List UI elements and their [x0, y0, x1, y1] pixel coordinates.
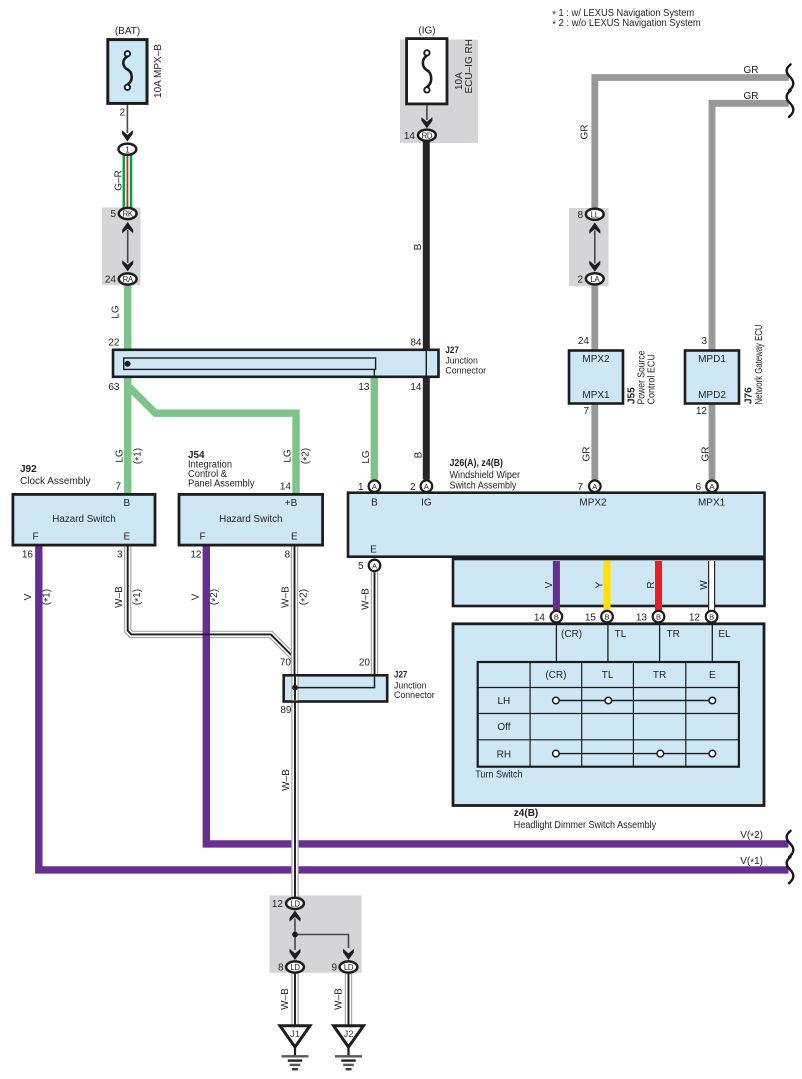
lead EL: [711, 625, 713, 662]
svg-text:A: A: [592, 482, 597, 491]
svg-text:E: E: [370, 545, 377, 556]
J27 mid bus dot: [292, 685, 298, 691]
wire LG J27 pin 13 to J26 pin 1A: [371, 377, 378, 480]
svg-text:(CR): (CR): [545, 670, 566, 681]
svg-text:84: 84: [410, 338, 422, 349]
switch J54 Hazard Switch: [179, 494, 323, 545]
svg-text:2: 2: [410, 482, 416, 493]
switch assembly inner box (V/Y/R/W): [453, 559, 765, 606]
wire B RD to J27 pin 84: [423, 142, 430, 352]
svg-text:Network Gateway ECU: Network Gateway ECU: [754, 325, 765, 405]
svg-text:A: A: [424, 482, 429, 491]
svg-text:70: 70: [280, 658, 292, 669]
svg-text:TL: TL: [615, 629, 627, 640]
arrow up RK: [122, 222, 133, 233]
break symbol V(*2): [787, 831, 794, 857]
svg-text:GR: GR: [582, 447, 593, 462]
svg-text:MPX1: MPX1: [582, 390, 610, 401]
svg-text:20: 20: [359, 658, 371, 669]
svg-text:B: B: [413, 243, 424, 250]
svg-text:J26(A), z4(B): J26(A), z4(B): [450, 458, 504, 469]
svg-text:* 2 : w/o LEXUS Navigation Sys: * 2 : w/o LEXUS Navigation System: [552, 18, 700, 31]
svg-text:E: E: [291, 532, 298, 543]
svg-text:MPD1: MPD1: [698, 354, 726, 365]
lead TR: [659, 625, 661, 662]
svg-text:V: V: [544, 581, 555, 588]
svg-text:14: 14: [280, 482, 292, 493]
ECU J55 Power Source Control ECU: [569, 351, 623, 404]
wire GR horizontal+vertical to J76 (net MPX1): [712, 103, 789, 351]
svg-text:2: 2: [577, 275, 583, 286]
svg-text:TR: TR: [653, 670, 666, 681]
link line RK-RA: [127, 230, 129, 263]
J27 bus dot: [125, 361, 131, 367]
ground J1: [280, 1026, 310, 1047]
svg-text:V: V: [191, 593, 202, 600]
svg-text:12: 12: [190, 549, 202, 560]
svg-text:W–B: W–B: [114, 586, 125, 608]
svg-text:J27: J27: [445, 345, 458, 356]
wire W-B J54 pin E to J27 pin 70: [291, 545, 298, 676]
arrow down to LD 9: [343, 949, 354, 960]
svg-text:13: 13: [358, 382, 370, 393]
connector ellipse RD: [418, 130, 436, 141]
svg-text:LA: LA: [590, 275, 600, 284]
svg-text:B: B: [709, 613, 714, 622]
lead TL: [607, 625, 609, 662]
svg-text:B: B: [123, 498, 130, 509]
svg-text:W: W: [699, 580, 710, 590]
svg-text:3: 3: [701, 336, 707, 347]
svg-text:LG: LG: [361, 450, 372, 464]
svg-text:J76: J76: [744, 387, 755, 404]
svg-text:J92: J92: [20, 464, 37, 475]
wire W-B LD pin 9 to ground J2: [345, 974, 352, 1027]
svg-text:5: 5: [110, 209, 116, 220]
ground J2: [334, 1026, 364, 1047]
svg-text:+B: +B: [285, 498, 298, 509]
svg-text:12: 12: [272, 899, 284, 910]
svg-text:8: 8: [278, 963, 284, 974]
svg-text:A: A: [372, 561, 377, 570]
link line LL-LA: [594, 231, 596, 264]
arrow down to LD 8: [290, 949, 301, 960]
svg-text:Connector: Connector: [394, 690, 435, 701]
wire W-B J27 pin 89 to LD pin 12: [291, 701, 298, 897]
svg-text:F: F: [199, 532, 205, 543]
svg-text:63: 63: [108, 382, 120, 393]
svg-text:GR: GR: [744, 65, 759, 76]
svg-text:Y: Y: [595, 581, 606, 588]
connector ellipse LL: [586, 209, 604, 220]
break symbol GR wire1: [787, 64, 794, 90]
svg-text:LG: LG: [115, 449, 126, 463]
svg-text:TL: TL: [602, 670, 614, 681]
svg-text:(*1): (*1): [132, 589, 145, 605]
svg-text:B: B: [656, 613, 661, 622]
svg-text:8: 8: [577, 210, 583, 221]
wire Y inside: [604, 561, 611, 611]
svg-text:Hazard Switch: Hazard Switch: [219, 514, 282, 525]
svg-text:5: 5: [358, 561, 364, 572]
svg-text:A: A: [372, 482, 377, 491]
svg-text:W–B: W–B: [361, 588, 372, 610]
connector ellipse LD 12: [286, 898, 304, 909]
svg-text:GR: GR: [580, 125, 591, 140]
wire R inside: [655, 561, 662, 611]
svg-text:F: F: [32, 532, 38, 543]
svg-text:B: B: [371, 498, 378, 509]
arrow up LD: [290, 910, 301, 921]
svg-text:J27: J27: [394, 670, 407, 681]
svg-text:J1: J1: [290, 1029, 300, 1040]
svg-text:(IG): (IG): [418, 26, 435, 37]
svg-text:LH: LH: [498, 696, 511, 707]
svg-text:GR: GR: [744, 91, 759, 102]
svg-text:7: 7: [577, 482, 583, 493]
junction connector J27 (top): [113, 350, 439, 377]
svg-text:14: 14: [404, 131, 416, 142]
svg-text:14: 14: [410, 382, 422, 393]
svg-text:89: 89: [280, 705, 292, 716]
arrow up LL: [589, 223, 600, 234]
svg-text:24: 24: [105, 275, 117, 286]
arrow down RA: [122, 260, 133, 271]
wire GR horizontal+vertical to LL (net MPX2): [595, 78, 789, 208]
lead (CR): [555, 625, 557, 662]
svg-text:J2: J2: [343, 1029, 353, 1040]
svg-text:LD: LD: [290, 963, 300, 972]
connector ellipse LD 8: [286, 961, 304, 972]
wire W-B J26 pin 5A to J27 pin 20: [371, 572, 378, 676]
connector block LL/LA (gray): [569, 208, 609, 286]
svg-text:LL: LL: [591, 210, 600, 219]
svg-text:1: 1: [358, 482, 364, 493]
svg-text:(*2): (*2): [209, 589, 222, 605]
svg-text:W–B: W–B: [334, 988, 345, 1010]
svg-text:LG: LG: [283, 449, 294, 463]
svg-text:(*2): (*2): [301, 448, 314, 464]
switch assembly z4(B) box: [453, 624, 764, 806]
wire W-B LD pin 8 to ground J1: [291, 974, 298, 1027]
svg-text:(CR): (CR): [561, 629, 582, 640]
svg-text:MPD2: MPD2: [698, 390, 726, 401]
svg-text:Clock Assembly: Clock Assembly: [20, 476, 91, 487]
svg-text:10A MPX–B: 10A MPX–B: [153, 44, 164, 98]
svg-text:G–R: G–R: [114, 170, 125, 191]
LD link lines: [294, 919, 296, 951]
svg-text:22: 22: [108, 338, 120, 349]
svg-text:B: B: [604, 613, 609, 622]
ECU J76 Network Gateway ECU: [685, 351, 739, 404]
svg-text:RD: RD: [422, 131, 433, 140]
svg-text:W–B: W–B: [280, 988, 291, 1010]
svg-text:V: V: [23, 593, 34, 600]
svg-text:RA: RA: [123, 275, 134, 284]
svg-text:Panel Assembly: Panel Assembly: [188, 479, 255, 490]
svg-text:ECU–IG RH: ECU–IG RH: [464, 39, 475, 93]
svg-text:1: 1: [125, 145, 129, 154]
arrow into RD: [421, 117, 432, 128]
connector ellipse RK: [119, 208, 137, 219]
J27 mid bus: [295, 677, 375, 688]
svg-text:Turn Switch: Turn Switch: [475, 770, 522, 781]
wire W-B J92 pin E center stripe: [128, 545, 295, 662]
svg-text:(*1): (*1): [42, 589, 55, 605]
svg-text:7: 7: [115, 482, 121, 493]
LD junction dot: [292, 932, 298, 938]
wire G-R connector 1 to RK: [123, 155, 133, 209]
svg-text:Headlight Dimmer Switch Assemb: Headlight Dimmer Switch Assembly: [514, 820, 656, 831]
svg-text:12: 12: [689, 613, 701, 624]
svg-text:EL: EL: [718, 629, 731, 640]
svg-text:2: 2: [119, 108, 125, 119]
fuse block (IG) gray background: [400, 40, 478, 144]
svg-text:W–B: W–B: [281, 586, 292, 608]
svg-text:Connector: Connector: [445, 365, 486, 376]
J27 bus to pin 13: [373, 369, 375, 376]
svg-text:(BAT): (BAT): [115, 26, 140, 37]
wire LG RA to J27 pin 22: [124, 286, 131, 350]
wire V inside: [553, 561, 560, 611]
svg-text:16: 16: [22, 549, 34, 560]
wire GR J76 to pin 6A: [709, 404, 716, 480]
W-B through J27 middle: [291, 677, 298, 701]
connector ellipse LD 9: [340, 961, 358, 972]
wire thin fuse BAT to arrow: [126, 104, 128, 133]
svg-text:z4(B): z4(B): [514, 808, 538, 819]
wire V from J54 pin F to right edge (net V*2): [206, 545, 788, 844]
svg-text:RH: RH: [497, 749, 511, 760]
svg-text:V(*2): V(*2): [740, 830, 763, 843]
wire W inside: [708, 561, 715, 611]
wire LG J27 pin 63 to J92 pin 7: [124, 377, 131, 495]
wire thin fuse IG to arrow: [426, 104, 428, 120]
wire GR J55 to pin 7A: [591, 404, 598, 480]
svg-text:RK: RK: [123, 210, 134, 219]
svg-text:GR: GR: [701, 447, 712, 462]
J27 bus bar: [124, 358, 376, 369]
wire B J27 pin 14 to J26 pin 2A: [423, 375, 430, 479]
svg-text:R: R: [646, 581, 657, 588]
svg-text:13: 13: [636, 613, 648, 624]
svg-text:LG: LG: [111, 305, 122, 319]
connector block RK/RA (gray): [102, 208, 141, 286]
svg-text:MPX1: MPX1: [698, 498, 726, 509]
svg-text:8: 8: [284, 549, 290, 560]
wire B thin through J27: [425, 350, 427, 376]
svg-text:B: B: [554, 613, 559, 622]
break symbol GR wire2: [787, 91, 794, 117]
connector block LD (gray): [270, 896, 362, 973]
svg-text:12: 12: [696, 406, 708, 417]
wire V from J92 pin F to right edge (net V*1): [39, 545, 789, 870]
svg-text:V(*1): V(*1): [740, 856, 763, 869]
wire GR LA to J55: [591, 286, 598, 351]
arrow into connector 1: [122, 130, 133, 141]
svg-text:Control ECU: Control ECU: [646, 354, 657, 404]
svg-text:LD: LD: [290, 900, 300, 909]
junction connector J27 (middle): [284, 675, 388, 701]
svg-text:(*1): (*1): [133, 448, 146, 464]
connector ellipse RA: [119, 273, 137, 284]
svg-text:9: 9: [331, 963, 337, 974]
wire W-B J92 pin E to junction (base): [128, 545, 295, 662]
svg-text:TR: TR: [667, 629, 680, 640]
svg-text:14: 14: [534, 613, 546, 624]
switch assembly J26 main box: [348, 493, 765, 557]
break symbol V(*1): [787, 857, 794, 883]
svg-text:W–B: W–B: [281, 769, 292, 791]
svg-text:Hazard Switch: Hazard Switch: [52, 514, 115, 525]
svg-text:IG: IG: [421, 498, 432, 509]
svg-text:7: 7: [583, 406, 589, 417]
svg-text:(*2): (*2): [299, 589, 312, 605]
svg-text:MPX2: MPX2: [579, 498, 607, 509]
svg-text:E: E: [709, 670, 716, 681]
svg-text:3: 3: [117, 549, 123, 560]
wire LG branch to J54 pin 14: [128, 386, 296, 496]
connector ellipse 1: [119, 144, 137, 155]
svg-text:15: 15: [585, 613, 597, 624]
svg-text:24: 24: [578, 336, 590, 347]
svg-text:A: A: [709, 482, 714, 491]
svg-text:E: E: [123, 532, 130, 543]
svg-text:Off: Off: [497, 722, 510, 733]
svg-text:Switch Assembly: Switch Assembly: [450, 481, 517, 492]
connector ellipse LA: [586, 273, 604, 284]
svg-text:MPX2: MPX2: [582, 354, 610, 365]
arrow down LA: [589, 261, 600, 272]
svg-text:6: 6: [695, 482, 701, 493]
svg-text:B: B: [414, 451, 425, 458]
svg-text:LD: LD: [344, 963, 354, 972]
switch J92 Hazard Switch: [13, 494, 155, 545]
turn switch table: [478, 662, 739, 767]
